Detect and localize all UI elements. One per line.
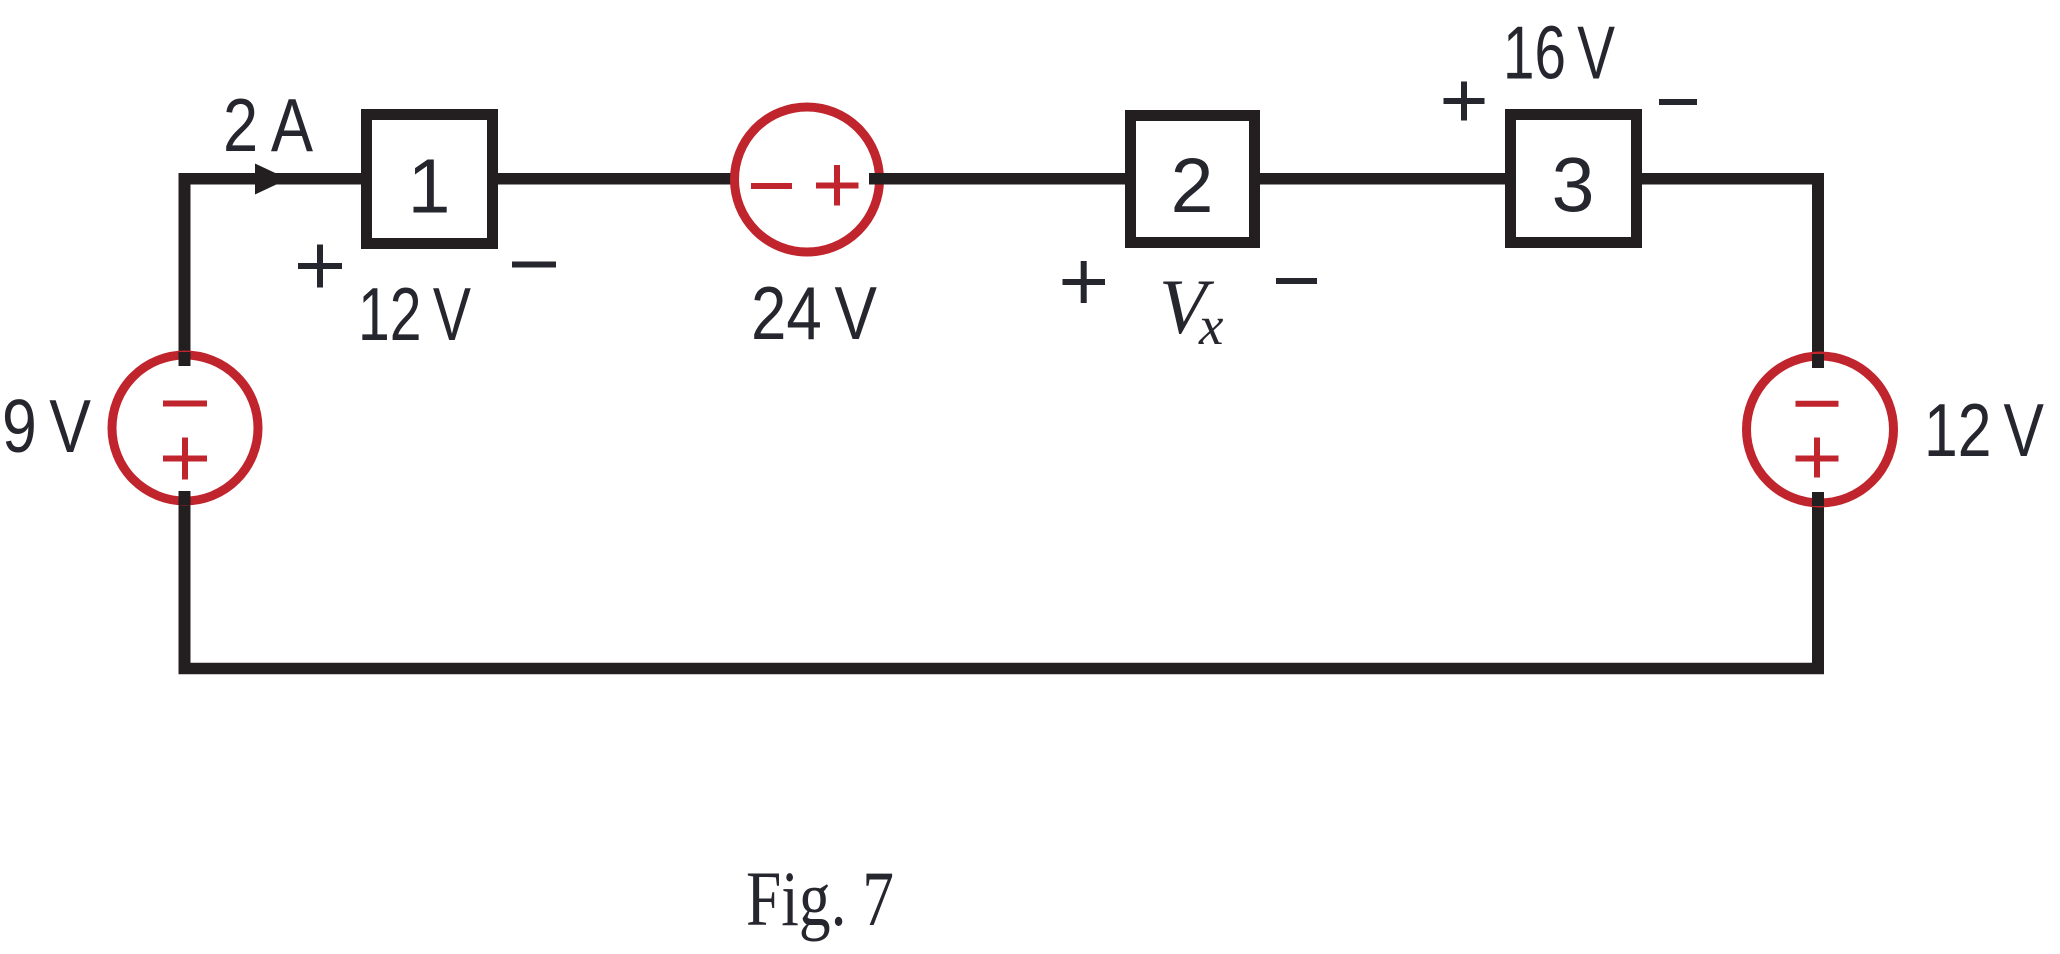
wire: top left segment <box>179 173 367 185</box>
plus sign inside 24V source <box>816 165 859 206</box>
minus sign inside right 12V source <box>1796 401 1839 407</box>
svg-text:Fig. 7: Fig. 7 <box>746 855 894 942</box>
wire: left vertical upper <box>179 173 191 364</box>
box element 3 <box>1511 115 1637 243</box>
wire: bottom <box>179 663 1825 675</box>
wire: box 1 to 24V source <box>493 173 744 185</box>
svg-text:24 V: 24 V <box>751 271 877 355</box>
plus sign inside 9V source <box>163 438 207 480</box>
plus sign (box 3 left polarity) <box>1444 82 1485 121</box>
wire stub into 9V source bottom <box>179 491 191 505</box>
wire: box 3 to top right corner <box>1637 173 1824 185</box>
wire stub into 9V source top <box>179 352 191 366</box>
minus sign inside 24V source <box>751 183 792 189</box>
box element 2 <box>1131 116 1255 243</box>
wire stub into right 12V source top <box>1812 354 1824 368</box>
wire stub into right 12V source bottom <box>1812 492 1824 506</box>
svg-text:9 V: 9 V <box>2 384 91 468</box>
svg-text:12 V: 12 V <box>1924 388 2044 472</box>
wire: left vertical lower <box>179 493 191 674</box>
wire: box 2 to box 3 <box>1255 173 1510 185</box>
svg-text:2 A: 2 A <box>223 83 313 167</box>
svg-text:3: 3 <box>1552 143 1595 229</box>
plus sign inside right 12V source <box>1796 438 1839 478</box>
voltage source 9 V (left circle) <box>112 355 258 501</box>
wire stub into 24V source right side <box>869 173 886 185</box>
svg-text:1: 1 <box>408 144 451 230</box>
svg-text:12 V: 12 V <box>358 272 471 356</box>
wire: right vertical upper <box>1812 173 1824 366</box>
svg-text:2: 2 <box>1171 143 1214 229</box>
wire: right vertical lower <box>1812 494 1824 674</box>
current arrow 2 A <box>255 164 288 195</box>
minus sign (box 3 right polarity) <box>1659 99 1697 105</box>
minus sign inside 9V source <box>163 401 207 407</box>
svg-text:x: x <box>1198 295 1224 356</box>
voltage source 24 V (circle) <box>735 107 880 252</box>
voltage source 12 V (right circle) <box>1747 356 1894 503</box>
minus sign (box 2 right polarity) <box>1276 278 1317 284</box>
wire: 24V source to box 2 <box>871 173 1130 185</box>
plus sign (box 2 left polarity) <box>1063 261 1106 303</box>
plus sign (box 1 left polarity) <box>298 245 342 288</box>
minus sign (box 1 right polarity) <box>512 262 556 268</box>
box element 1 <box>367 115 493 244</box>
svg-text:16 V: 16 V <box>1503 11 1615 95</box>
